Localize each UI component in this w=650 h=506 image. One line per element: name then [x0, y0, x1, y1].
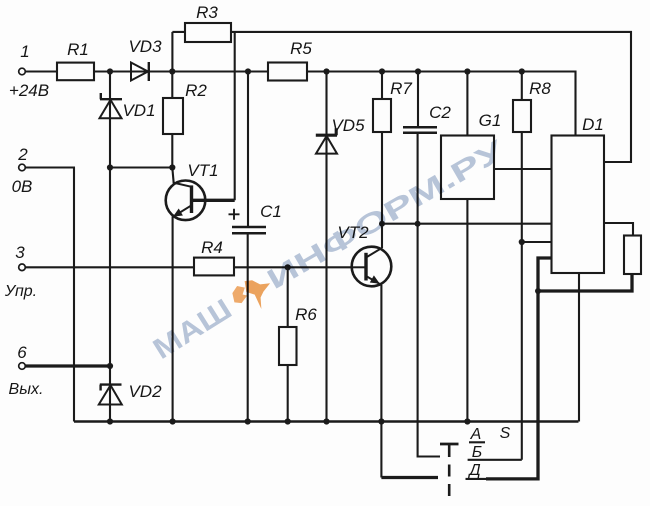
svg-text:VD1: VD1 [122, 101, 155, 120]
svg-text:VT1: VT1 [187, 161, 218, 180]
svg-text:VD5: VD5 [331, 116, 365, 135]
svg-text:VD3: VD3 [128, 37, 162, 56]
svg-text:6: 6 [17, 343, 27, 362]
svg-text:3: 3 [15, 243, 25, 262]
svg-text:R8: R8 [529, 79, 551, 98]
svg-text:1: 1 [20, 42, 29, 61]
svg-text:D1: D1 [582, 115, 604, 134]
svg-text:Д: Д [467, 462, 480, 479]
svg-text:+24В: +24В [9, 81, 49, 100]
svg-text:C1: C1 [260, 202, 282, 221]
svg-text:R7: R7 [390, 79, 412, 98]
svg-text:R3: R3 [196, 3, 218, 22]
svg-text:G1: G1 [479, 111, 502, 130]
svg-text:А: А [470, 426, 482, 443]
svg-text:0В: 0В [12, 177, 33, 196]
svg-text:R5: R5 [290, 39, 312, 58]
svg-text:R6: R6 [295, 305, 317, 324]
svg-text:R1: R1 [67, 40, 89, 59]
svg-text:Вых.: Вых. [9, 381, 44, 398]
svg-text:S: S [500, 425, 511, 442]
svg-text:Упр.: Упр. [4, 283, 37, 300]
svg-text:R2: R2 [185, 81, 207, 100]
svg-text:2: 2 [17, 145, 28, 164]
svg-text:R4: R4 [201, 238, 223, 257]
svg-text:C2: C2 [429, 103, 451, 122]
svg-text:VD2: VD2 [128, 382, 162, 401]
svg-text:Б: Б [472, 444, 482, 461]
